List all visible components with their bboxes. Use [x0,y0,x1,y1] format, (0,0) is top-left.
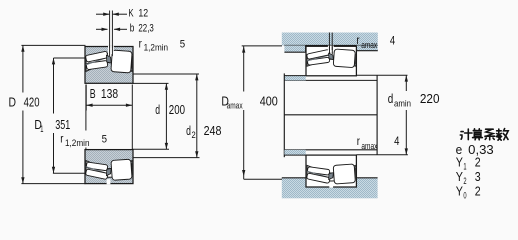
shaft shoulder (upper) [284,76,305,81]
svg-text:D: D [9,95,17,110]
left upper bearing half: guide ring [106,55,111,63]
svg-text:r: r [357,134,360,148]
right lower bearing half: rings [306,155,356,187]
svg-text:200: 200 [169,102,185,117]
dimension d 200 [133,82,169,84]
left upper bearing half: left roller [85,51,108,62]
left lower bearing half: cavity between raceways [86,161,132,178]
svg-text:K: K [128,7,134,19]
svg-text:2: 2 [475,183,481,198]
svg-text:0: 0 [463,189,466,200]
left upper bearing half: outline [85,47,133,84]
svg-text:0,33: 0,33 [468,142,494,157]
right upper bearing half: left cage bar [307,55,330,61]
svg-text:1: 1 [463,161,466,172]
housing top band [282,33,378,46]
dimension Damax 400 [242,45,282,47]
svg-text:400: 400 [260,94,278,109]
svg-text:3: 3 [475,169,481,184]
heading: Chinese "calculation factors" drawn as paths [460,129,508,141]
left lower bearing half: lubrication groove [107,179,111,184]
svg-text:Y: Y [456,169,463,184]
dimension B 138 [85,85,87,111]
right upper bearing half: lube hole lines [329,46,331,54]
svg-text:4: 4 [394,134,400,148]
shaft seat line (upper) [284,79,377,81]
shaft seat line (lower) [284,149,377,151]
right lower bearing half: left cage bar [307,171,330,177]
svg-text:amax: amax [361,140,377,151]
svg-text:r: r [356,33,359,47]
svg-text:amin: amin [394,98,411,109]
right upper bearing half: left roller [307,49,331,59]
left upper bearing half: cavity between raceways [86,53,132,71]
left upper bearing half: left rear roller [86,60,108,69]
svg-text:248: 248 [204,123,222,138]
dimension b 22,3 [96,28,108,30]
left lower bearing half: right cage bar [112,163,133,167]
svg-text:1: 1 [40,123,43,134]
svg-text:Y: Y [456,183,463,198]
right upper bearing half: cavity between raceways [307,52,355,66]
svg-text:4: 4 [390,34,396,48]
svg-text:22,3: 22,3 [138,23,153,35]
svg-text:1,2min: 1,2min [144,41,169,52]
svg-text:d: d [388,91,394,106]
left lower bearing half: guide ring [106,168,111,175]
right upper bearing half: outline [306,46,356,76]
svg-text:5: 5 [180,38,185,50]
left lower bearing half: left rear roller [86,162,108,171]
right lower bearing half: cavity between raceways [307,165,355,181]
svg-text:138: 138 [101,86,118,101]
dimension D 420 [21,44,85,46]
svg-text:2: 2 [192,129,196,140]
svg-text:420: 420 [24,95,40,110]
dimension d2 248 [133,73,199,75]
K/b extension lines (lube hole) [109,11,111,48]
right upper bearing half: guide ring [329,53,334,59]
right lower bearing half: right cage bar [334,167,356,171]
svg-text:r: r [60,131,63,145]
left lower bearing half: outline [85,150,133,184]
svg-text:2: 2 [475,155,481,170]
svg-text:d: d [155,102,160,117]
svg-text:12: 12 [138,7,148,19]
shaft right edge [376,75,378,155]
svg-text:5: 5 [102,133,107,145]
svg-text:2: 2 [463,175,466,186]
housing bottom band [282,178,378,198]
right lower bearing half: outline [306,155,356,187]
dimension D1 351 [54,57,86,59]
housing lube hole lines [328,33,330,51]
shaft shoulder (lower) [284,150,305,155]
svg-text:351: 351 [55,117,70,132]
left upper bearing half: lubrication groove [108,46,114,54]
housing step line bottom-right [356,177,377,179]
right lower bearing half: guide ring [329,173,334,180]
svg-text:d: d [186,123,191,138]
left upper bearing half: right cage bar [112,65,133,69]
svg-text:amax: amax [361,39,377,50]
svg-text:amax: amax [227,100,243,111]
svg-text:Y: Y [456,155,463,170]
right lower bearing half: left rear roller [307,167,330,176]
left upper bearing half: right roller (large) [111,50,132,73]
housing right shoulder step [356,45,377,50]
svg-text:B: B [90,86,96,101]
left lower bearing half: left cage bar [86,167,107,174]
left upper bearing half: lube hole lines [109,47,111,57]
right upper bearing half: lubrication groove [328,46,334,53]
left upper bearing half: rings [85,47,133,84]
housing left shoulder step [284,45,305,52]
dimension damin 220 [356,74,407,76]
left lower bearing half: right roller (large) [111,159,132,180]
right lower bearing half: left roller [307,173,331,183]
left lower bearing half: rings [85,150,133,184]
right lower bearing half: right roller (large) [333,164,355,184]
svg-text:r: r [139,36,142,50]
right upper bearing half: left rear roller [307,57,330,65]
housing bore line [284,44,378,46]
shaft axis line [284,114,377,116]
dimension K 12 [96,13,109,15]
left face extension line [85,85,87,131]
right upper bearing half: rings [306,46,356,76]
svg-text:1,2min: 1,2min [65,137,90,148]
right upper bearing half: right cage bar [334,61,356,65]
svg-text:b: b [130,23,135,35]
right upper bearing half: right roller (large) [333,49,355,68]
right lower bearing half: lubrication groove [329,183,333,188]
shaft left edge [283,73,285,157]
housing step line bottom-left [282,177,306,179]
left lower bearing half: left roller [85,169,108,180]
svg-text:220: 220 [420,91,440,106]
left upper bearing half: left cage bar [86,58,107,65]
